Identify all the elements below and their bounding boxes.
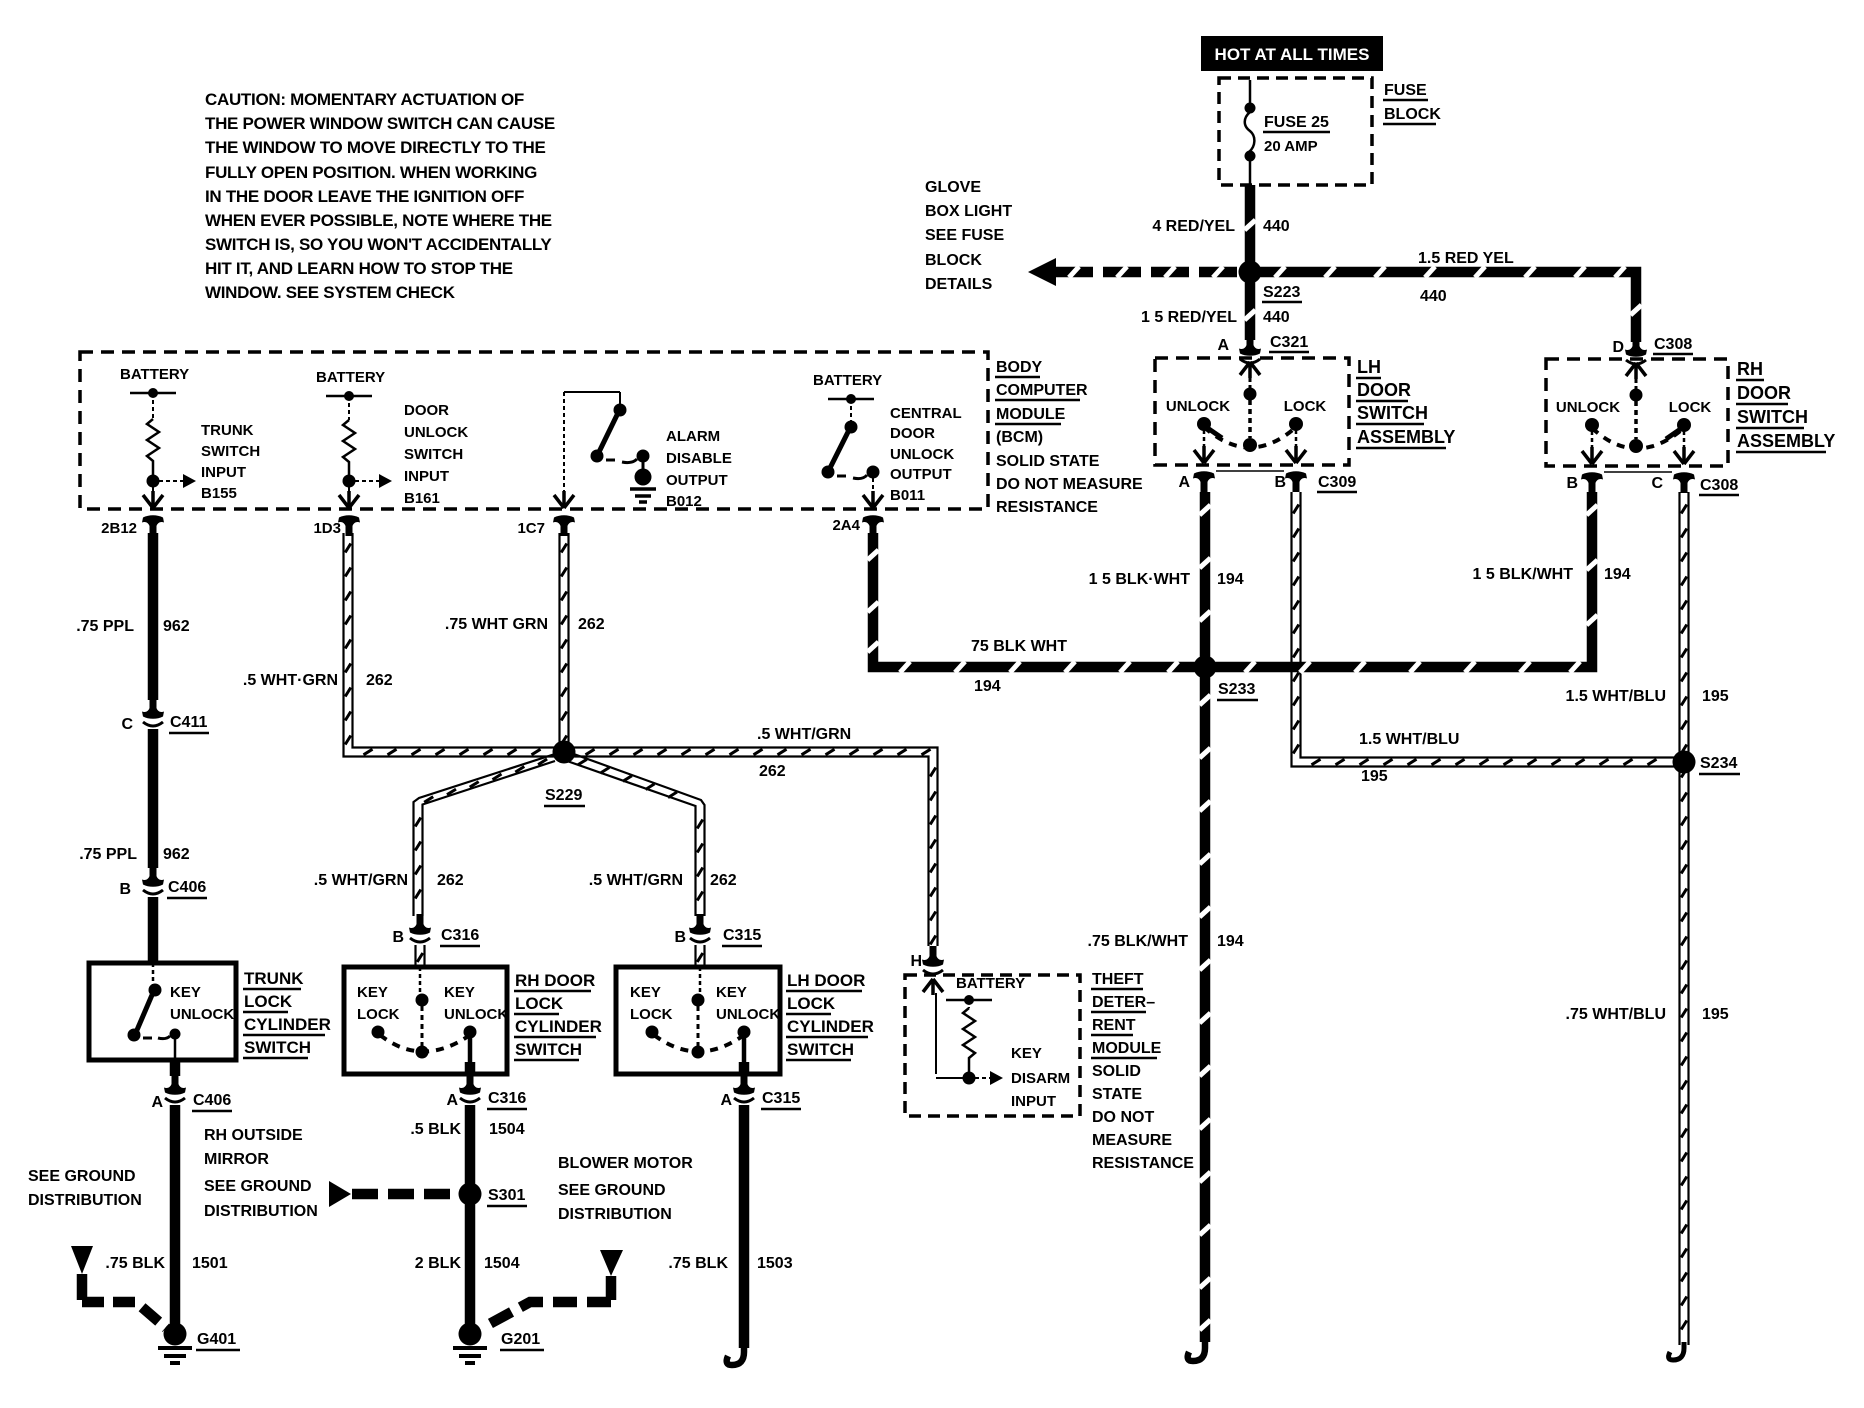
svg-text:.75 WHT GRN: .75 WHT GRN <box>445 616 548 633</box>
BCM pin 1C7 <box>553 515 575 536</box>
svg-text:A: A <box>151 1094 163 1111</box>
svg-text:SOLID STATE: SOLID STATE <box>996 453 1100 470</box>
wire 194 from BCM 2A4 right to RH door pin B <box>873 492 1592 667</box>
svg-text:BLOWER MOTOR: BLOWER MOTOR <box>558 1155 693 1172</box>
svg-text:.5 WHT/GRN: .5 WHT/GRN <box>314 872 408 889</box>
wire 195 LH door pin B down and right to S234 <box>1292 492 1681 767</box>
svg-text:B155: B155 <box>201 485 237 502</box>
svg-text:TRUNK: TRUNK <box>244 969 304 988</box>
wire 262 from 1D3 down and right to S229 <box>344 533 557 757</box>
svg-text:962: 962 <box>163 618 190 635</box>
svg-text:195: 195 <box>1702 688 1729 705</box>
connector C411 pin C <box>142 698 164 726</box>
svg-text:RENT: RENT <box>1092 1017 1136 1034</box>
svg-text:SWITCH: SWITCH <box>1737 407 1808 427</box>
RH door lock cylinder switch box <box>344 967 507 1074</box>
svg-text:B: B <box>674 929 686 946</box>
svg-text:IN THE DOOR LEAVE THE IGNITION: IN THE DOOR LEAVE THE IGNITION OFF <box>205 187 524 206</box>
svg-text:BATTERY: BATTERY <box>956 975 1025 992</box>
svg-text:C315: C315 <box>723 927 761 944</box>
svg-text:.75 PPL: .75 PPL <box>76 618 134 635</box>
svg-text:195: 195 <box>1702 1006 1729 1023</box>
svg-text:THEFT: THEFT <box>1092 971 1144 988</box>
svg-text:C321: C321 <box>1270 334 1308 351</box>
svg-text:DETAILS: DETAILS <box>925 276 993 293</box>
svg-text:B011: B011 <box>890 487 925 504</box>
wire 1501 to G401 <box>170 1105 181 1330</box>
ground distribution branch to G401 (dashed with triangle) <box>71 1246 93 1274</box>
svg-text:.75 BLK: .75 BLK <box>105 1255 165 1272</box>
connector C406 pin A <box>164 1074 186 1102</box>
fuse 25 label <box>1264 114 1329 155</box>
svg-text:CYLINDER: CYLINDER <box>244 1015 331 1034</box>
svg-text:UNLOCK: UNLOCK <box>170 1006 234 1023</box>
svg-text:4 RED/YEL: 4 RED/YEL <box>1152 218 1235 235</box>
svg-text:S301: S301 <box>488 1187 525 1204</box>
svg-text:LOCK: LOCK <box>244 992 293 1011</box>
svg-text:UNLOCK: UNLOCK <box>890 446 954 463</box>
svg-text:SWITCH IS, SO YOU WON'T ACCIDE: SWITCH IS, SO YOU WON'T ACCIDENTALLY <box>205 235 552 254</box>
wire 962 C411 to C406 <box>148 729 159 868</box>
svg-text:SEE GROUND: SEE GROUND <box>28 1168 136 1185</box>
svg-text:(BCM): (BCM) <box>996 429 1043 446</box>
svg-text:INPUT: INPUT <box>1011 1093 1056 1110</box>
svg-text:BATTERY: BATTERY <box>120 366 189 383</box>
glove box light note <box>925 179 1012 293</box>
svg-text:B: B <box>1274 474 1286 491</box>
svg-text:DISTRIBUTION: DISTRIBUTION <box>28 1192 142 1209</box>
svg-text:262: 262 <box>366 672 393 689</box>
svg-text:LOCK: LOCK <box>515 994 564 1013</box>
svg-text:KEY: KEY <box>716 984 747 1001</box>
trunk lock cylinder switch label <box>244 969 331 1057</box>
svg-text:C316: C316 <box>488 1090 526 1107</box>
svg-text:INPUT: INPUT <box>201 464 246 481</box>
svg-text:DOOR: DOOR <box>890 425 935 442</box>
svg-text:COMPUTER: COMPUTER <box>996 382 1088 399</box>
svg-text:DOOR: DOOR <box>1737 383 1791 403</box>
svg-text:1.5 WHT/BLU: 1.5 WHT/BLU <box>1359 731 1459 748</box>
svg-text:BLOCK: BLOCK <box>925 252 982 269</box>
svg-text:C308: C308 <box>1654 336 1692 353</box>
svg-text:1.5 WHT/BLU: 1.5 WHT/BLU <box>1566 688 1666 705</box>
svg-text:OUTPUT: OUTPUT <box>666 472 728 489</box>
svg-text:.5 BLK: .5 BLK <box>410 1121 461 1138</box>
RH lock switch interior <box>357 967 508 1074</box>
svg-text:ASSEMBLY: ASSEMBLY <box>1737 431 1835 451</box>
svg-text:GLOVE: GLOVE <box>925 179 981 196</box>
svg-text:LH: LH <box>1357 357 1381 377</box>
svg-text:UNLOCK: UNLOCK <box>404 424 468 441</box>
svg-text:1501: 1501 <box>192 1255 228 1272</box>
svg-text:KEY: KEY <box>170 984 201 1001</box>
connector C315 pin A <box>733 1074 755 1102</box>
svg-text:A: A <box>446 1092 458 1109</box>
connector C406 pin B <box>142 866 164 894</box>
svg-text:195: 195 <box>1361 768 1388 785</box>
connector C315 pin B <box>689 914 711 942</box>
svg-text:.75 BLK/WHT: .75 BLK/WHT <box>1088 933 1189 950</box>
svg-text:SWITCH: SWITCH <box>404 446 463 463</box>
svg-text:.75 PPL: .75 PPL <box>79 846 137 863</box>
RH door switch assembly dashed box <box>1546 359 1728 466</box>
wire 440 S223 down to LH door <box>1245 282 1256 340</box>
BCM pin 2A4 <box>862 515 884 536</box>
svg-text:WINDOW. SEE SYSTEM CHECK: WINDOW. SEE SYSTEM CHECK <box>205 283 456 302</box>
svg-text:KEY: KEY <box>630 984 661 1001</box>
svg-text:.75 WHT/BLU: .75 WHT/BLU <box>1566 1006 1666 1023</box>
svg-text:A: A <box>1217 337 1229 354</box>
svg-text:1 5 RED/YEL: 1 5 RED/YEL <box>1141 309 1237 326</box>
svg-text:262: 262 <box>578 616 605 633</box>
svg-text:KEY: KEY <box>357 984 388 1001</box>
wire 1504 to S301 <box>465 1105 476 1330</box>
svg-text:THE WINDOW TO MOVE DIRECTLY TO: THE WINDOW TO MOVE DIRECTLY TO THE <box>205 138 546 157</box>
svg-text:DISARM: DISARM <box>1011 1070 1070 1087</box>
fuse F25 20A symbol <box>1245 80 1255 185</box>
svg-text:194: 194 <box>1217 571 1244 588</box>
svg-text:OUTPUT: OUTPUT <box>890 466 952 483</box>
svg-text:C315: C315 <box>762 1090 800 1107</box>
RH switch interior <box>1556 363 1711 464</box>
svg-text:SWITCH: SWITCH <box>1357 403 1428 423</box>
fuse block label <box>1384 82 1441 123</box>
LH lock switch interior <box>630 967 780 1074</box>
svg-text:B161: B161 <box>404 490 440 507</box>
svg-text:FUSE 25: FUSE 25 <box>1264 114 1329 131</box>
connector H into theft module <box>922 946 944 974</box>
svg-text:C: C <box>121 716 133 733</box>
wire 262 S229 right branch to C315 <box>567 753 705 916</box>
connector C316 pin A <box>459 1074 481 1102</box>
svg-text:ASSEMBLY: ASSEMBLY <box>1357 427 1455 447</box>
svg-text:UNLOCK: UNLOCK <box>444 1006 508 1023</box>
svg-text:KEY: KEY <box>1011 1045 1042 1062</box>
splice S301 with ground distribution arrow <box>459 1183 482 1206</box>
svg-text:1504: 1504 <box>489 1121 525 1138</box>
svg-text:SEE GROUND: SEE GROUND <box>204 1178 312 1195</box>
wire trunk pin A <box>170 1060 181 1076</box>
svg-text:BOX LIGHT: BOX LIGHT <box>925 203 1012 220</box>
wire 962 C406 to trunk switch <box>148 897 159 963</box>
svg-text:FULLY OPEN POSITION. WHEN WORK: FULLY OPEN POSITION. WHEN WORKING <box>205 163 537 182</box>
svg-text:1.5 RED YEL: 1.5 RED YEL <box>1418 250 1514 267</box>
svg-text:SOLID: SOLID <box>1092 1063 1141 1080</box>
svg-text:SEE GROUND: SEE GROUND <box>558 1182 666 1199</box>
svg-text:B: B <box>392 929 404 946</box>
svg-text:DO NOT: DO NOT <box>1092 1109 1154 1126</box>
connector C316 pin B <box>409 914 431 942</box>
svg-text:1504: 1504 <box>484 1255 520 1272</box>
fuse block dashed box <box>1219 78 1372 185</box>
wire hatching slashes <box>1245 220 1256 230</box>
svg-text:CYLINDER: CYLINDER <box>787 1017 874 1036</box>
svg-text:440: 440 <box>1420 288 1447 305</box>
svg-text:B: B <box>119 881 131 898</box>
central door unlock output circuit (battery + switch) <box>813 372 962 508</box>
svg-text:SWITCH: SWITCH <box>515 1040 582 1059</box>
svg-text:S223: S223 <box>1263 284 1300 301</box>
svg-text:C406: C406 <box>168 879 206 896</box>
svg-text:DO NOT MEASURE: DO NOT MEASURE <box>996 476 1143 493</box>
svg-text:LOCK: LOCK <box>787 994 836 1013</box>
svg-text:C308: C308 <box>1700 477 1738 494</box>
svg-text:THE POWER WINDOW SWITCH CAN CA: THE POWER WINDOW SWITCH CAN CAUSE <box>205 114 555 133</box>
svg-text:ALARM: ALARM <box>666 428 720 445</box>
alarm disable output circuit (switch + ground) <box>554 392 732 510</box>
svg-text:SWITCH: SWITCH <box>201 443 260 460</box>
trunk switch interior (key unlock) <box>128 963 235 1060</box>
wire 194 LH door pin A down to bottom <box>1200 492 1211 1342</box>
svg-text:2A4: 2A4 <box>832 517 860 534</box>
svg-text:1 5 BLK·WHT: 1 5 BLK·WHT <box>1089 571 1191 588</box>
svg-text:D: D <box>1612 339 1624 356</box>
svg-text:1 5 BLK/WHT: 1 5 BLK/WHT <box>1473 566 1574 583</box>
HOT AT ALL TIMES banner <box>1201 36 1383 71</box>
svg-text:RH: RH <box>1737 359 1763 379</box>
svg-text:DISTRIBUTION: DISTRIBUTION <box>558 1206 672 1223</box>
svg-text:DETER–: DETER– <box>1092 994 1155 1011</box>
LH pins A / B connector C309 <box>1193 471 1215 492</box>
wire 262 S229 to theft deterrent module <box>573 748 938 947</box>
splice S223 <box>1239 261 1262 284</box>
svg-text:C309: C309 <box>1318 474 1356 491</box>
wire 262 C315 into LH door lock switch <box>696 945 705 967</box>
svg-text:194: 194 <box>974 678 1001 695</box>
svg-text:1503: 1503 <box>757 1255 793 1272</box>
BCM pin 1D3 <box>338 515 360 536</box>
svg-text:BLOCK: BLOCK <box>1384 106 1441 123</box>
svg-text:SEE FUSE: SEE FUSE <box>925 227 1004 244</box>
svg-text:CAUTION: MOMENTARY ACTUATION O: CAUTION: MOMENTARY ACTUATION OF <box>205 90 524 109</box>
svg-text:LOCK: LOCK <box>630 1006 673 1023</box>
wire hook end 1503 <box>727 1344 744 1365</box>
wire LH lock pin A <box>739 1062 750 1076</box>
ground G401 <box>164 1323 187 1346</box>
wire 962 2B12 to C411 <box>148 533 159 700</box>
svg-text:SWITCH: SWITCH <box>787 1040 854 1059</box>
svg-text:RH OUTSIDE: RH OUTSIDE <box>204 1127 303 1144</box>
see ground distribution note (left) <box>28 1168 142 1209</box>
svg-text:1D3: 1D3 <box>313 520 341 537</box>
rh outside mirror note <box>204 1127 318 1220</box>
svg-text:.75 BLK: .75 BLK <box>668 1255 728 1272</box>
door unlock switch input circuit (battery + resistor) <box>316 369 468 508</box>
svg-text:CYLINDER: CYLINDER <box>515 1017 602 1036</box>
caution note text <box>205 90 555 302</box>
svg-text:S233: S233 <box>1218 681 1255 698</box>
wire 262 S229 left branch to C316 <box>414 753 559 916</box>
svg-text:75 BLK WHT: 75 BLK WHT <box>971 638 1067 655</box>
svg-text:WHEN EVER POSSIBLE, NOTE WHERE: WHEN EVER POSSIBLE, NOTE WHERE THE <box>205 211 552 230</box>
ground distribution branch to G201 (dashed with triangle) <box>600 1250 623 1276</box>
wire 440 fuse to S223 <box>1245 185 1256 265</box>
body computer module dashed box <box>80 352 988 509</box>
svg-text:RH DOOR: RH DOOR <box>515 971 595 990</box>
trunk switch input circuit (battery + resistor) <box>120 366 260 508</box>
svg-text:2 BLK: 2 BLK <box>415 1255 462 1272</box>
wire 195 RH door pin C down to bottom <box>1680 492 1689 1345</box>
svg-text:DOOR: DOOR <box>1357 380 1411 400</box>
svg-text:BATTERY: BATTERY <box>316 369 385 386</box>
wire hook end 194 <box>1188 1340 1205 1361</box>
svg-text:HIT IT, AND LEARN HOW TO STOP: HIT IT, AND LEARN HOW TO STOP THE <box>205 259 513 278</box>
svg-text:UNLOCK: UNLOCK <box>716 1006 780 1023</box>
svg-text:MEASURE: MEASURE <box>1092 1132 1172 1149</box>
svg-text:262: 262 <box>437 872 464 889</box>
svg-text:KEY: KEY <box>444 984 475 1001</box>
svg-text:HOT AT ALL TIMES: HOT AT ALL TIMES <box>1215 45 1370 64</box>
svg-text:LOCK: LOCK <box>1284 398 1327 415</box>
svg-text:440: 440 <box>1263 309 1290 326</box>
svg-text:UNLOCK: UNLOCK <box>1556 399 1620 416</box>
svg-text:262: 262 <box>759 763 786 780</box>
svg-text:DOOR: DOOR <box>404 402 449 419</box>
blower motor note <box>558 1155 693 1223</box>
RH pins B / C connector C308 <box>1581 472 1603 493</box>
BCM label text <box>996 359 1143 516</box>
svg-text:B012: B012 <box>666 493 702 510</box>
svg-text:B: B <box>1566 475 1578 492</box>
wire 440 S223 to RH door (right horizontal) <box>1259 272 1636 342</box>
svg-text:262: 262 <box>710 872 737 889</box>
svg-text:A: A <box>720 1092 732 1109</box>
svg-text:LOCK: LOCK <box>1669 399 1712 416</box>
wire 262 C316 into RH door lock switch <box>416 945 425 967</box>
svg-text:.5 WHT·GRN: .5 WHT·GRN <box>243 672 338 689</box>
trunk lock cylinder switch box <box>89 963 236 1060</box>
svg-text:S229: S229 <box>545 787 582 804</box>
svg-text:194: 194 <box>1604 566 1631 583</box>
svg-text:STATE: STATE <box>1092 1086 1142 1103</box>
svg-text:INPUT: INPUT <box>404 468 449 485</box>
wire RH lock pin A <box>465 1062 476 1076</box>
svg-text:MIRROR: MIRROR <box>204 1151 269 1168</box>
svg-text:C406: C406 <box>193 1092 231 1109</box>
svg-text:H: H <box>910 953 922 970</box>
RH door switch assembly label <box>1737 359 1835 451</box>
svg-text:C316: C316 <box>441 927 479 944</box>
svg-text:FUSE: FUSE <box>1384 82 1427 99</box>
splice S229 <box>553 741 576 764</box>
svg-text:S234: S234 <box>1700 755 1737 772</box>
LH door lock cylinder switch box <box>616 967 780 1074</box>
LH switch interior <box>1166 362 1326 463</box>
LH door switch assembly label <box>1357 357 1455 447</box>
svg-text:BODY: BODY <box>996 359 1043 376</box>
wire to glove box light (dashed arrow left) <box>1028 258 1240 286</box>
RH door lock cylinder switch label <box>515 971 602 1059</box>
theft deterrent module dashed box <box>905 975 1080 1116</box>
svg-text:2B12: 2B12 <box>101 520 137 537</box>
svg-text:BATTERY: BATTERY <box>813 372 882 389</box>
svg-text:194: 194 <box>1217 933 1244 950</box>
svg-text:DISABLE: DISABLE <box>666 450 732 467</box>
wire 262 from 1C7 down to S229 <box>560 533 569 744</box>
svg-text:RESISTANCE: RESISTANCE <box>996 499 1098 516</box>
svg-text:RESISTANCE: RESISTANCE <box>1092 1155 1194 1172</box>
svg-text:C411: C411 <box>170 714 207 731</box>
wire hook end 195 <box>1669 1342 1684 1360</box>
svg-text:G401: G401 <box>197 1331 236 1348</box>
svg-text:CENTRAL: CENTRAL <box>890 405 962 422</box>
splice S234 <box>1673 751 1696 774</box>
wire 1503 to hook <box>739 1105 750 1348</box>
svg-text:G201: G201 <box>501 1331 540 1348</box>
svg-text:440: 440 <box>1263 218 1290 235</box>
svg-text:TRUNK: TRUNK <box>201 422 254 439</box>
svg-text:C: C <box>1651 475 1663 492</box>
svg-text:DISTRIBUTION: DISTRIBUTION <box>204 1203 318 1220</box>
svg-text:MODULE: MODULE <box>996 406 1066 423</box>
LH door lock cylinder switch label <box>787 971 874 1059</box>
svg-text:.5 WHT/GRN: .5 WHT/GRN <box>757 726 851 743</box>
svg-text:A: A <box>1178 474 1190 491</box>
svg-text:.5 WHT/GRN: .5 WHT/GRN <box>589 872 683 889</box>
svg-text:LH DOOR: LH DOOR <box>787 971 865 990</box>
svg-text:LOCK: LOCK <box>357 1006 400 1023</box>
ground G201 <box>459 1323 482 1346</box>
svg-text:MODULE: MODULE <box>1092 1040 1162 1057</box>
theft module interior battery + resistor + key disarm input <box>923 975 1070 1110</box>
svg-text:SWITCH: SWITCH <box>244 1038 311 1057</box>
splice S233 <box>1194 656 1217 679</box>
svg-text:1C7: 1C7 <box>517 520 545 537</box>
BCM pin 2B12 <box>142 515 164 536</box>
LH door switch assembly dashed box <box>1155 358 1349 465</box>
svg-text:UNLOCK: UNLOCK <box>1166 398 1230 415</box>
theft module label <box>1092 971 1194 1172</box>
svg-text:962: 962 <box>163 846 190 863</box>
svg-text:20 AMP: 20 AMP <box>1264 138 1318 155</box>
